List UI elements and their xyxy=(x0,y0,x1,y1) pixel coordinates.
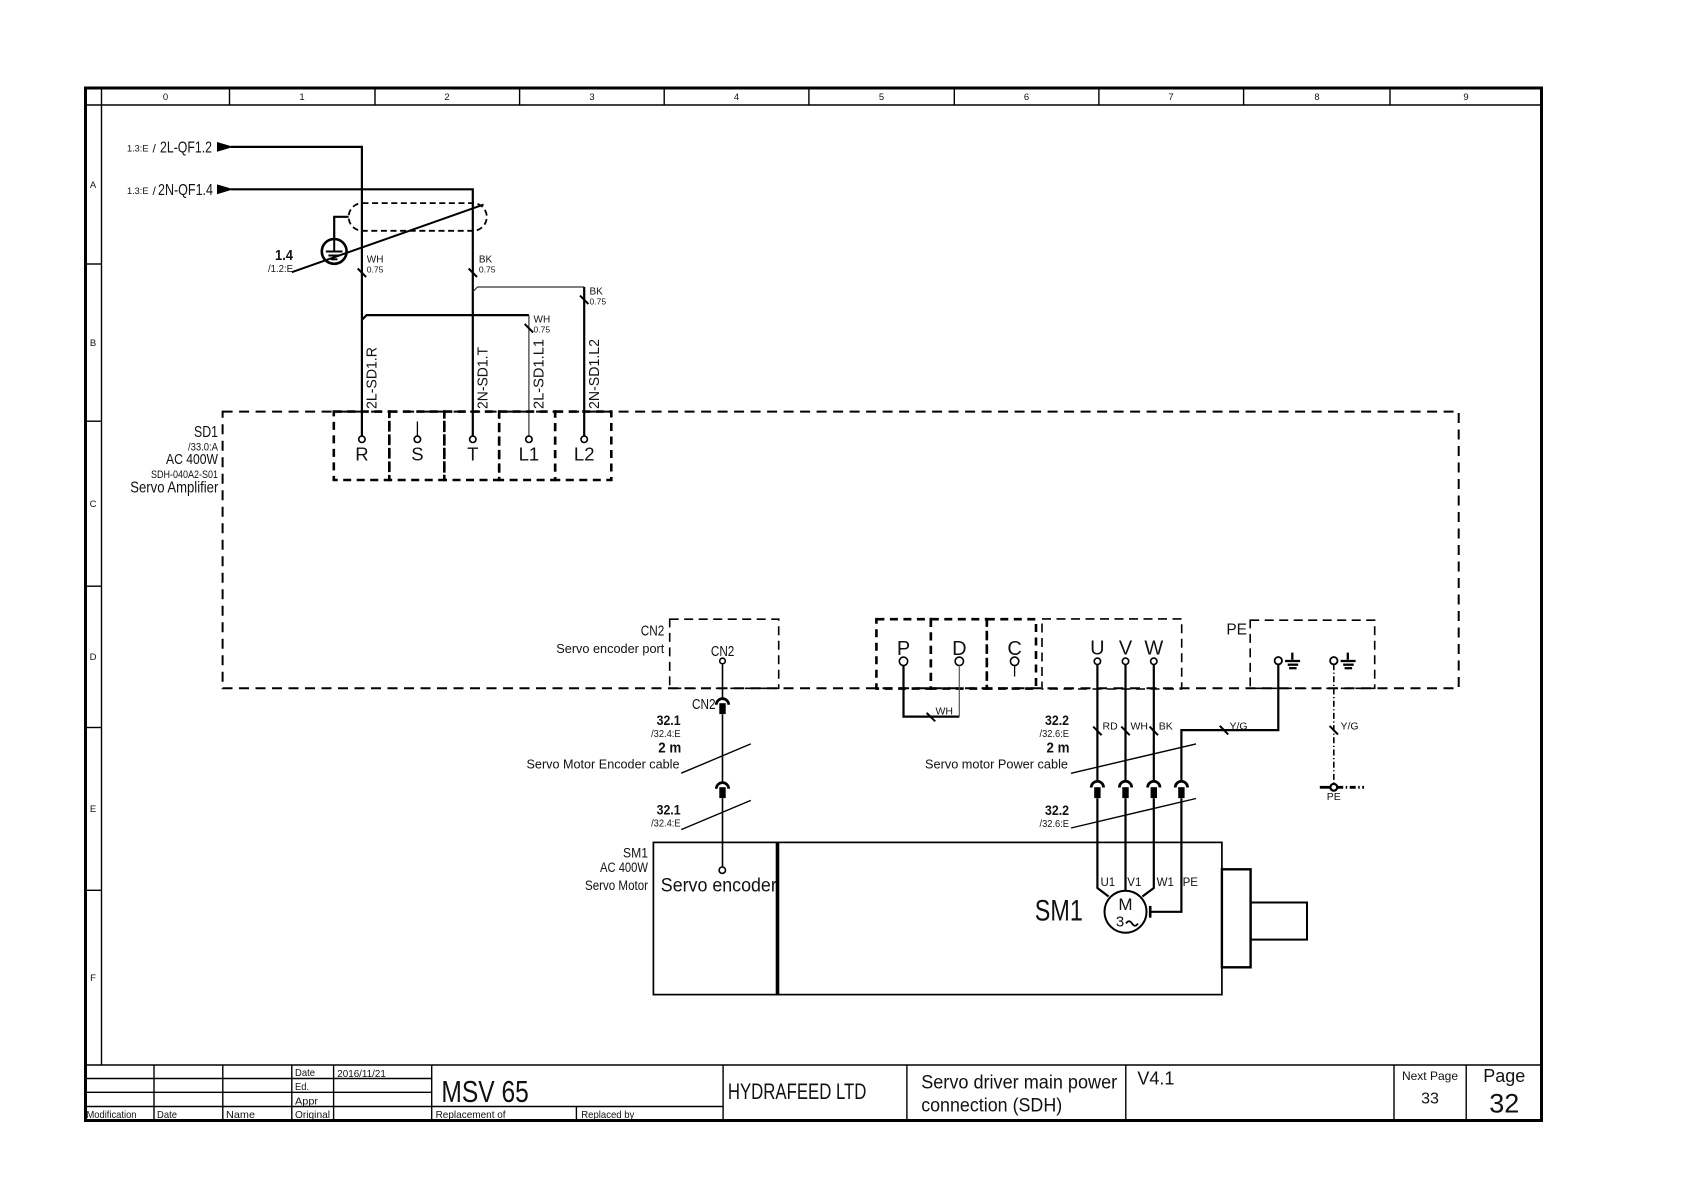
encoder cable slash 1 xyxy=(681,744,751,773)
svg-text:2L-QF1.2: 2L-QF1.2 xyxy=(160,140,212,157)
SM1 encoder divider xyxy=(776,842,780,994)
earth symbol at PE1 xyxy=(1285,653,1300,669)
wire mark BK on 2N xyxy=(469,269,477,278)
svg-text:connection (SDH): connection (SDH) xyxy=(921,1096,1062,1117)
svg-text:L2: L2 xyxy=(574,444,595,465)
svg-text:MSV 65: MSV 65 xyxy=(441,1074,528,1109)
noise filter 1.4 : circle with earth xyxy=(322,239,347,264)
svg-text:U1: U1 xyxy=(1101,877,1116,889)
svg-text:3: 3 xyxy=(1116,914,1124,931)
svg-text:S: S xyxy=(411,444,423,465)
svg-text:Y/G: Y/G xyxy=(1341,721,1359,733)
svg-text:Ed.: Ed. xyxy=(295,1081,309,1093)
power connector U xyxy=(1091,781,1103,787)
wire mark WH on 2L xyxy=(358,269,366,278)
svg-text:Name: Name xyxy=(226,1109,255,1121)
terminal cell C xyxy=(987,619,1036,688)
SD1 labels xyxy=(130,424,219,497)
svg-text:Servo motor Power cable: Servo motor Power cable xyxy=(925,757,1068,772)
svg-text:/32.4:E: /32.4:E xyxy=(651,817,681,829)
encoder terminal xyxy=(719,867,725,873)
motor shaft flange xyxy=(1222,869,1251,967)
PE earth drop dash-dot xyxy=(1333,664,1335,784)
svg-text:CN2: CN2 xyxy=(692,696,716,713)
svg-text:AC 400W: AC 400W xyxy=(600,860,648,875)
svg-text:/32.6:E: /32.6:E xyxy=(1040,818,1070,830)
svg-text:/1.2:E: /1.2:E xyxy=(268,263,293,275)
terminal PE1 xyxy=(1275,657,1282,664)
PE bus bar xyxy=(1320,786,1331,789)
svg-text:RD: RD xyxy=(1103,721,1119,733)
terminal cell L1 xyxy=(499,412,555,480)
svg-text:7: 7 xyxy=(1168,92,1173,103)
power connector W xyxy=(1148,781,1160,787)
title block grid xyxy=(86,1065,1542,1121)
frame column numbers xyxy=(163,92,1469,103)
svg-text:CN2: CN2 xyxy=(641,622,665,639)
SM1 motor body xyxy=(653,842,1222,994)
svg-text:PE: PE xyxy=(1226,622,1247,639)
svg-text:0.75: 0.75 xyxy=(534,324,551,334)
power wire V xyxy=(1124,664,1126,781)
svg-text:R: R xyxy=(355,444,368,465)
noise filter 1.4 : hook wire xyxy=(334,217,348,240)
power connector PE xyxy=(1175,781,1187,787)
svg-text:Servo Motor Encoder cable: Servo Motor Encoder cable xyxy=(527,757,680,772)
svg-text:4: 4 xyxy=(734,92,739,103)
arrow head 2N xyxy=(217,184,234,194)
encoder cable wire CN2 to SM1 xyxy=(722,664,724,699)
svg-text:0.75: 0.75 xyxy=(367,264,384,274)
svg-text:PE: PE xyxy=(1183,877,1199,889)
terminal cell L2 xyxy=(555,412,611,480)
svg-text:C: C xyxy=(90,499,97,510)
wire mark WH on V xyxy=(1121,727,1129,736)
svg-text:WH: WH xyxy=(1131,721,1149,733)
wire branch BK to SD1.L2 xyxy=(473,287,584,292)
svg-text:2 m: 2 m xyxy=(658,739,681,756)
svg-text:AC 400W: AC 400W xyxy=(166,451,219,468)
shield stadium dashed xyxy=(349,203,487,231)
encoder cable slash 2 xyxy=(681,800,751,829)
svg-text:/: / xyxy=(153,142,157,156)
encoder connector pair 2 xyxy=(716,783,728,789)
svg-text:/: / xyxy=(153,184,157,198)
svg-text:32.1: 32.1 xyxy=(657,802,681,818)
svg-text:Servo Motor: Servo Motor xyxy=(585,878,648,893)
svg-text:1.3:E: 1.3:E xyxy=(127,144,149,155)
svg-text:D: D xyxy=(90,652,97,663)
frame header row line xyxy=(86,104,1542,106)
svg-text:W1: W1 xyxy=(1157,877,1174,889)
terminal cell T xyxy=(444,412,499,480)
SM1 left labels xyxy=(585,845,648,893)
svg-text:0.75: 0.75 xyxy=(479,264,496,274)
title block main texts xyxy=(441,1066,1525,1119)
svg-text:2N-SD1.L2: 2N-SD1.L2 xyxy=(587,339,603,409)
wire 2N from arrow to SD1.T xyxy=(231,189,473,436)
wire mark RD on U xyxy=(1093,727,1101,736)
power cable slash 2 xyxy=(1071,799,1196,829)
svg-text:0.75: 0.75 xyxy=(590,296,607,306)
svg-text:Servo driver main power: Servo driver main power xyxy=(921,1073,1118,1094)
SD1 amplifier outline dashed box xyxy=(223,412,1459,689)
svg-text:Servo Amplifier: Servo Amplifier xyxy=(130,480,219,497)
svg-text:BK: BK xyxy=(1159,721,1173,733)
wire mark WH on P-D jumper xyxy=(927,713,936,721)
frame outer border xyxy=(86,88,1542,1121)
svg-text:WH: WH xyxy=(936,706,954,718)
svg-text:F: F xyxy=(90,973,96,984)
svg-text:W: W xyxy=(1144,638,1163,660)
svg-text:2L-SD1.R: 2L-SD1.R xyxy=(365,347,381,409)
wire mark WH on L1 xyxy=(525,324,533,332)
svg-text:V1: V1 xyxy=(1127,877,1141,889)
terminal cell S xyxy=(389,412,444,480)
svg-text:Servo encoder port: Servo encoder port xyxy=(556,641,664,656)
svg-text:V4.1: V4.1 xyxy=(1137,1069,1174,1089)
terminal cell UVW xyxy=(1042,619,1182,689)
svg-text:1.3:E: 1.3:E xyxy=(127,186,149,197)
svg-text:HYDRAFEED LTD: HYDRAFEED LTD xyxy=(728,1079,867,1104)
power wire U xyxy=(1096,664,1098,781)
power connector V xyxy=(1119,781,1131,787)
svg-text:Date: Date xyxy=(157,1109,177,1121)
svg-text:B: B xyxy=(90,338,96,349)
svg-text:32: 32 xyxy=(1489,1089,1519,1119)
arrow source label 2N-QF1.4 xyxy=(127,182,213,199)
svg-text:Replaced by: Replaced by xyxy=(581,1109,635,1121)
svg-text:2016/11/21: 2016/11/21 xyxy=(337,1068,386,1080)
svg-text:2 m: 2 m xyxy=(1047,739,1070,756)
terminal S xyxy=(414,436,420,442)
svg-text:2L-SD1.L1: 2L-SD1.L1 xyxy=(532,339,548,409)
svg-text:M: M xyxy=(1118,895,1132,914)
terminal cell R xyxy=(334,412,390,480)
svg-text:32.2: 32.2 xyxy=(1045,712,1069,728)
svg-text:SD1: SD1 xyxy=(194,424,218,441)
svg-text:Modification: Modification xyxy=(87,1109,137,1121)
svg-text:V: V xyxy=(1119,638,1133,660)
svg-text:SM1: SM1 xyxy=(623,845,648,860)
svg-text:PE: PE xyxy=(1327,791,1341,803)
motor shaft xyxy=(1251,903,1307,940)
PE cell xyxy=(1250,620,1375,688)
svg-text:CN2: CN2 xyxy=(711,643,735,660)
arrow source label 2L-QF1.2 xyxy=(127,140,212,157)
svg-text:U: U xyxy=(1090,638,1104,660)
svg-text:2: 2 xyxy=(444,92,449,103)
frame column ticks xyxy=(230,88,1391,105)
terminal L1 xyxy=(526,436,532,442)
svg-text:Date: Date xyxy=(295,1067,315,1079)
svg-text:Next Page: Next Page xyxy=(1402,1069,1458,1083)
motor PE terminal bar xyxy=(1149,906,1152,918)
wire branch WH to SD1.L1 xyxy=(362,315,529,320)
terminal T xyxy=(470,436,476,442)
svg-text:E: E xyxy=(90,804,96,815)
svg-text:/32.4:E: /32.4:E xyxy=(651,728,681,740)
wire mark BK on L2 xyxy=(580,296,588,304)
svg-text:Original: Original xyxy=(295,1109,330,1121)
svg-text:2N-SD1.T: 2N-SD1.T xyxy=(475,347,491,409)
shield diagonal line xyxy=(292,205,484,273)
power wire W xyxy=(1153,664,1155,781)
svg-text:SM1: SM1 xyxy=(1035,895,1083,928)
svg-text:32.1: 32.1 xyxy=(657,712,681,728)
terminal C stub xyxy=(1014,665,1016,677)
svg-text:9: 9 xyxy=(1463,92,1468,103)
svg-text:Page: Page xyxy=(1483,1066,1525,1086)
CN2 port cell xyxy=(670,619,779,688)
motor circle M 3~ xyxy=(1105,891,1147,933)
svg-text:32.2: 32.2 xyxy=(1045,802,1069,818)
svg-text:8: 8 xyxy=(1314,92,1319,103)
wire mark BK on W xyxy=(1150,727,1158,736)
jumper wire P to D xyxy=(904,665,960,716)
encoder connector pair 1 xyxy=(716,699,728,705)
svg-text:0: 0 xyxy=(163,92,168,103)
terminal L2 xyxy=(581,436,587,442)
power cable labels xyxy=(925,712,1070,830)
svg-text:33: 33 xyxy=(1421,1091,1439,1108)
svg-text:2N-QF1.4: 2N-QF1.4 xyxy=(158,182,213,199)
svg-text:Y/G: Y/G xyxy=(1230,721,1248,733)
svg-text:Servo encoder: Servo encoder xyxy=(661,876,778,897)
wire mark YG on PE run xyxy=(1220,726,1228,735)
svg-text:6: 6 xyxy=(1024,92,1029,103)
terminal cell P xyxy=(876,619,930,688)
power wire PE from PE1 xyxy=(1181,664,1278,782)
encoder cable labels xyxy=(527,712,682,829)
wire 2L from arrow to SD1.R xyxy=(231,147,362,436)
terminal S stub xyxy=(416,422,418,436)
svg-text:3: 3 xyxy=(589,92,594,103)
svg-text:Appr: Appr xyxy=(295,1095,319,1107)
svg-text:1.4: 1.4 xyxy=(275,247,294,264)
svg-text:5: 5 xyxy=(879,92,884,103)
title block small labels xyxy=(87,1067,635,1121)
svg-text:Replacement of: Replacement of xyxy=(436,1109,506,1121)
power cable slash 1 xyxy=(1071,744,1196,773)
svg-text:1: 1 xyxy=(299,92,304,103)
frame row ticks xyxy=(86,264,102,890)
label 1.4 /1.2:E xyxy=(268,247,294,275)
earth symbol at PE2 xyxy=(1341,653,1356,669)
arrow head 2L xyxy=(217,142,234,152)
svg-text:T: T xyxy=(467,444,478,465)
frame row letters xyxy=(90,180,97,984)
PE bus junction ring xyxy=(1330,784,1337,791)
svg-text:A: A xyxy=(90,180,97,191)
terminal R xyxy=(359,436,365,442)
motor wire labels U1 V1 W1 PE xyxy=(1101,877,1199,889)
terminal cell D xyxy=(931,619,987,688)
CN2 port labels xyxy=(556,622,664,656)
terminal PE2 xyxy=(1330,657,1337,664)
frame inner left strip line xyxy=(101,88,103,1065)
svg-text:/32.6:E: /32.6:E xyxy=(1040,728,1070,740)
wire mark YG on earth drop xyxy=(1330,726,1338,735)
svg-text:L1: L1 xyxy=(519,444,540,465)
